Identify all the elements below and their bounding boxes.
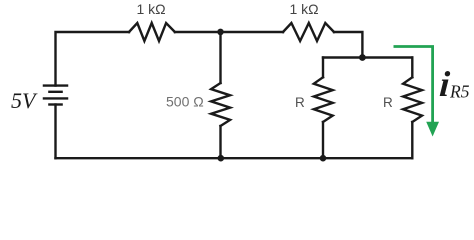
wire battery bottom lead [54, 105, 56, 159]
svg-text:1 kΩ: 1 kΩ [137, 1, 166, 17]
wire bottom rail [56, 157, 413, 159]
svg-text:1 kΩ: 1 kΩ [290, 1, 319, 17]
wire 500 ohm bottom lead [219, 126, 221, 158]
node dot bottom (left R) [320, 155, 327, 162]
node dot top (500 ohm tap) [217, 29, 224, 36]
wire top middle (R1 to R2) [175, 31, 283, 33]
resistor R4 right R zigzag [403, 77, 422, 122]
wire left R top lead [322, 58, 324, 78]
resistor R1 1 kOhm zigzag [129, 23, 175, 41]
wire top-left loop (battery top to R1) [56, 32, 130, 86]
svg-text:R: R [295, 95, 305, 110]
svg-text:R: R [383, 95, 393, 110]
current arrow head [426, 122, 439, 137]
wire right R bottom lead [411, 122, 413, 158]
svg-text:5V: 5V [11, 88, 38, 113]
svg-text:R5: R5 [449, 82, 470, 102]
resistor R5 500 Ohm zigzag [211, 83, 230, 126]
battery V1 5V plates [43, 86, 69, 105]
node dot middle (parallel bar) [359, 54, 366, 61]
node dot bottom (500 ohm) [218, 155, 225, 162]
svg-text:500 Ω: 500 Ω [166, 94, 204, 110]
resistor R3 left R zigzag [314, 77, 333, 122]
resistor R2 1 kOhm zigzag [283, 23, 334, 41]
current arrow iR5 green [394, 47, 433, 123]
wire top right with corner down to node [334, 32, 362, 58]
wire left R bottom lead [322, 122, 324, 158]
wire right R top lead [411, 58, 413, 78]
wire 500 ohm top lead [219, 32, 221, 83]
wire bar over parallel resistors [323, 56, 412, 58]
